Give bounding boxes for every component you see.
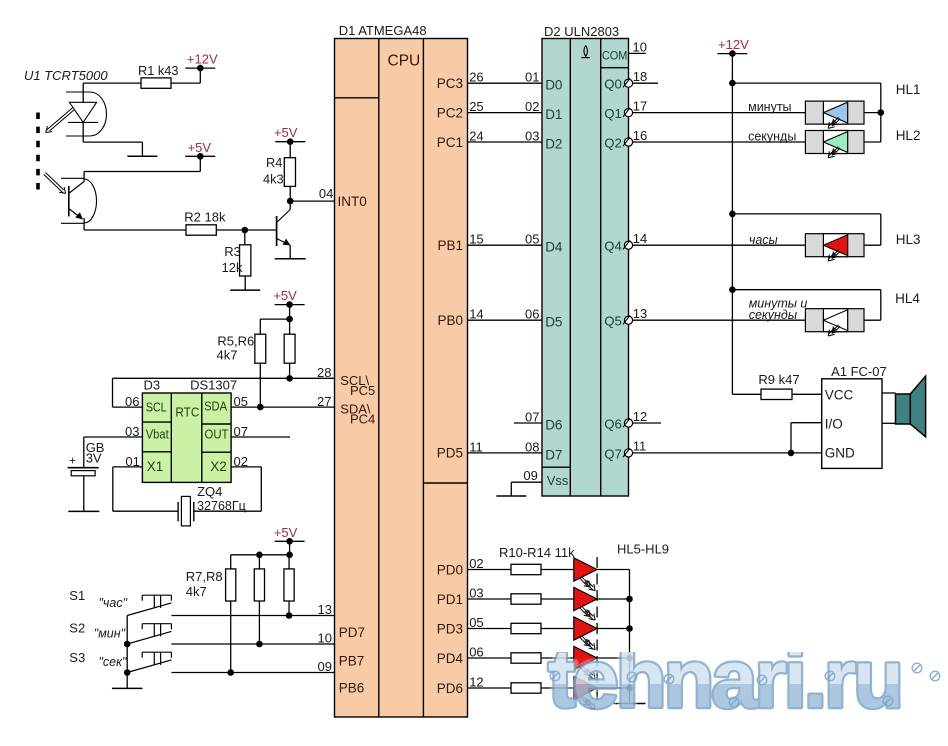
svg-text:секунды: секунды [748, 130, 796, 144]
svg-text:HL3: HL3 [896, 232, 921, 247]
svg-text:R9 k47: R9 k47 [758, 372, 799, 387]
svg-text:ZQ4: ZQ4 [197, 484, 222, 499]
svg-text:X1: X1 [147, 459, 164, 474]
svg-text:03: 03 [525, 128, 539, 143]
svg-text:01: 01 [125, 454, 139, 469]
svg-text:VCC: VCC [825, 387, 854, 402]
svg-text:03: 03 [125, 424, 139, 439]
svg-text:11: 11 [469, 439, 483, 454]
svg-text:"час": "час" [99, 596, 128, 610]
svg-text:03: 03 [469, 585, 483, 600]
svg-text:GND: GND [825, 445, 855, 460]
svg-text:Q1: Q1 [604, 106, 622, 121]
svg-text:R3: R3 [224, 244, 241, 259]
svg-text:11: 11 [633, 439, 647, 454]
svg-text:14: 14 [469, 307, 483, 322]
svg-text:Q4: Q4 [604, 239, 622, 254]
svg-text:26: 26 [469, 70, 483, 85]
svg-text:07: 07 [234, 424, 248, 439]
svg-text:+12V: +12V [718, 37, 749, 52]
svg-text:S3: S3 [69, 650, 85, 665]
svg-text:R10-R14 11k: R10-R14 11k [499, 545, 575, 560]
svg-text:24: 24 [469, 128, 483, 143]
svg-text:10: 10 [318, 631, 332, 646]
svg-text:DS1307: DS1307 [190, 377, 237, 392]
svg-text:секунды: секунды [749, 308, 797, 322]
svg-text:PD1: PD1 [437, 592, 463, 607]
svg-text:PD5: PD5 [437, 446, 463, 461]
svg-text:HL1: HL1 [896, 82, 921, 97]
svg-text:+5V: +5V [274, 125, 298, 140]
svg-text:14: 14 [633, 231, 647, 246]
svg-text:R5,R6: R5,R6 [217, 333, 254, 348]
svg-text:09: 09 [523, 468, 537, 483]
svg-text:4k3: 4k3 [263, 171, 284, 186]
svg-text:X2: X2 [210, 459, 227, 474]
svg-text:PB0: PB0 [437, 313, 463, 328]
svg-text:05: 05 [525, 232, 539, 247]
svg-text:+: + [69, 456, 76, 468]
svg-text:D3: D3 [144, 377, 161, 392]
svg-text:27: 27 [317, 394, 331, 409]
svg-text:HL2: HL2 [896, 128, 921, 143]
svg-text:PD0: PD0 [437, 562, 463, 577]
svg-text:+5V: +5V [273, 288, 297, 303]
svg-text:17: 17 [633, 98, 647, 113]
svg-text:PD3: PD3 [437, 621, 463, 636]
svg-text:28: 28 [317, 365, 331, 380]
svg-text:Q7: Q7 [604, 446, 622, 461]
svg-text:02: 02 [525, 99, 539, 114]
svg-text:13: 13 [318, 602, 332, 617]
svg-text:13: 13 [633, 306, 647, 321]
svg-text:D1 ATMEGA48: D1 ATMEGA48 [339, 23, 427, 38]
svg-text:+5V: +5V [188, 140, 212, 155]
svg-text:D1: D1 [545, 107, 562, 122]
svg-text:25: 25 [469, 99, 483, 114]
svg-text:Q5: Q5 [604, 314, 622, 329]
svg-text:PD6: PD6 [437, 681, 463, 696]
svg-text:Vss: Vss [547, 473, 569, 488]
svg-text:4k7: 4k7 [186, 584, 207, 599]
svg-text:PC1: PC1 [437, 135, 463, 150]
svg-text:05: 05 [234, 394, 248, 409]
svg-text:09: 09 [318, 659, 332, 674]
svg-text:HL4: HL4 [895, 291, 920, 306]
svg-text:D0: D0 [545, 78, 562, 93]
svg-text:32768Гц: 32768Гц [197, 499, 246, 513]
svg-text:+12V: +12V [187, 52, 218, 67]
svg-text:SCL: SCL [146, 401, 167, 415]
svg-text:Vbat: Vbat [146, 428, 169, 442]
svg-text:"мин": "мин" [94, 626, 126, 640]
svg-text:PC2: PC2 [437, 105, 463, 120]
svg-text:12: 12 [633, 409, 647, 424]
svg-text:S2: S2 [69, 620, 85, 635]
svg-text:3V: 3V [86, 450, 102, 465]
svg-text:R7,R8: R7,R8 [186, 569, 223, 584]
svg-text:Q6: Q6 [604, 417, 622, 432]
svg-text:D6: D6 [545, 418, 562, 433]
svg-text:"сек": "сек" [99, 655, 128, 669]
svg-text:10: 10 [633, 40, 647, 55]
svg-text:+5V: +5V [274, 525, 298, 540]
svg-text:D4: D4 [545, 240, 563, 255]
svg-text:HL5-HL9: HL5-HL9 [617, 541, 669, 556]
svg-text:SDA: SDA [204, 399, 228, 413]
svg-text:INT0: INT0 [338, 194, 367, 209]
svg-text:RTC: RTC [175, 405, 199, 419]
svg-text:06: 06 [525, 307, 539, 322]
svg-text:08: 08 [525, 439, 539, 454]
svg-text:часы: часы [749, 233, 778, 247]
svg-text:01: 01 [525, 70, 539, 85]
svg-text:PC4: PC4 [350, 411, 375, 426]
svg-text:PB7: PB7 [339, 654, 365, 669]
svg-text:PB6: PB6 [339, 681, 365, 696]
svg-text:OUT: OUT [205, 428, 229, 442]
svg-text:4k7: 4k7 [217, 348, 238, 363]
svg-text:04: 04 [319, 186, 333, 201]
svg-text:CPU: CPU [388, 53, 421, 70]
svg-text:06: 06 [125, 394, 139, 409]
svg-text:02: 02 [469, 556, 483, 571]
svg-text:D7: D7 [545, 447, 562, 462]
svg-text:COM: COM [602, 48, 628, 62]
svg-text:15: 15 [469, 232, 483, 247]
svg-text:D5: D5 [545, 315, 562, 330]
svg-text:PB1: PB1 [437, 238, 463, 253]
svg-text:07: 07 [525, 409, 539, 424]
svg-text:Q0: Q0 [604, 77, 622, 92]
svg-text:R4: R4 [266, 155, 282, 170]
svg-text:PC3: PC3 [437, 76, 463, 91]
svg-text:U1 TCRT5000: U1 TCRT5000 [24, 68, 108, 83]
svg-text:PD7: PD7 [339, 625, 365, 640]
svg-text:12: 12 [469, 674, 483, 689]
svg-text:PD4: PD4 [437, 651, 464, 666]
svg-text:02: 02 [234, 454, 248, 469]
svg-text:D2: D2 [545, 137, 562, 152]
svg-text:Q2: Q2 [604, 136, 622, 151]
svg-text:минуты: минуты [748, 100, 791, 114]
svg-text:S1: S1 [69, 588, 85, 603]
svg-text:16: 16 [633, 128, 647, 143]
svg-text:A1 FC-07: A1 FC-07 [831, 364, 887, 379]
svg-text:R2 18k: R2 18k [184, 209, 226, 224]
svg-text:I/O: I/O [825, 417, 843, 432]
svg-text:D2 ULN2803: D2 ULN2803 [544, 24, 619, 39]
svg-text:18: 18 [633, 69, 647, 84]
svg-text:12k: 12k [222, 260, 243, 275]
svg-text:05: 05 [469, 615, 483, 630]
svg-text:06: 06 [469, 644, 483, 659]
svg-text:PC5: PC5 [350, 383, 375, 398]
svg-text:R1 k43: R1 k43 [138, 63, 179, 78]
